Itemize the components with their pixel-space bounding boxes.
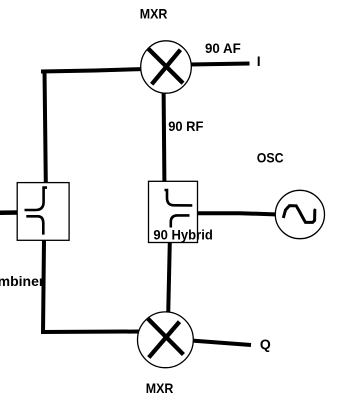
svg-text:Combiner: Combiner — [0, 273, 45, 289]
combiner box — [17, 183, 69, 241]
wire: 90 RF vertical, top mixer to hybrid — [162, 91, 167, 182]
mixer MXR (bottom): circle — [138, 312, 194, 368]
svg-text:OSC: OSC — [257, 150, 284, 166]
mixer MXR (top): circle — [141, 41, 192, 93]
wire: left vertical from corner down to combiner top — [45, 70, 46, 183]
wire: top mixer output to I — [190, 64, 250, 65]
wire: combiner left input from canvas edge — [0, 210, 20, 215]
svg-text:90 Hybrid: 90 Hybrid — [153, 227, 212, 243]
svg-text:I: I — [257, 53, 261, 69]
svg-text:90 RF: 90 RF — [168, 118, 204, 134]
90 Hybrid box — [149, 181, 198, 242]
wire: top-left horizontal from corner to top mixer — [41, 69, 146, 72]
svg-text:MXR: MXR — [146, 380, 174, 396]
wire: hybrid right to oscillator — [197, 213, 278, 214]
oscillator OSC: circle with sine — [275, 190, 324, 238]
svg-text:90 AF: 90 AF — [205, 40, 241, 56]
wire: bottom horizontal from lower corner to bottom mixer — [41, 330, 140, 335]
svg-text:Q: Q — [260, 336, 271, 352]
svg-text:MXR: MXR — [140, 6, 168, 22]
wire: hybrid bottom vertical to bottom mixer — [168, 242, 170, 314]
wire: combiner bottom vertical down to lower corner — [43, 240, 44, 334]
wire: bottom mixer output to Q — [191, 341, 251, 346]
